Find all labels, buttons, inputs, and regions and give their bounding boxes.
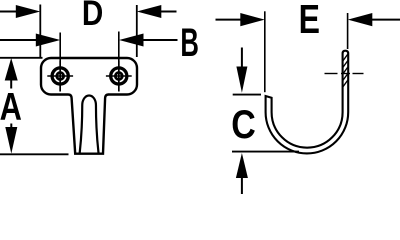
dimension B left arrow xyxy=(0,34,60,47)
extension line A bottom xyxy=(0,153,69,155)
J-hook profile (side view) xyxy=(266,51,349,154)
section hatch marks in side-view plate edge xyxy=(343,54,348,87)
extension line D left xyxy=(39,5,41,58)
extension line C bottom xyxy=(232,151,299,153)
extension line E left xyxy=(264,11,266,92)
svg-text:C: C xyxy=(231,102,256,146)
svg-text:B: B xyxy=(180,22,199,66)
dimension D right arrow xyxy=(137,5,177,18)
svg-text:A: A xyxy=(0,86,22,129)
extension line D right xyxy=(136,5,138,57)
extension line A top xyxy=(0,57,43,59)
dimension D left arrow xyxy=(0,5,40,18)
dimension C up arrow xyxy=(236,153,248,194)
extension line E right xyxy=(347,13,349,49)
screw hole left xyxy=(47,61,73,92)
extension line B left (runs into left hole crosshair) xyxy=(59,33,61,92)
extension line C top xyxy=(233,94,261,96)
plate outline (front view) xyxy=(41,58,137,95)
dimension A down arrow xyxy=(5,124,17,154)
svg-text:E: E xyxy=(299,0,320,42)
dimension B right arrow xyxy=(119,34,178,47)
prong inner arch xyxy=(80,96,99,153)
hole centerline (side view, dashed) xyxy=(325,73,364,75)
dimension E right arrow xyxy=(348,13,400,26)
extension line B right (runs into right hole crosshair) xyxy=(118,32,120,92)
svg-text:D: D xyxy=(82,0,103,33)
screw hole right xyxy=(106,61,132,92)
dimension C down arrow xyxy=(236,48,247,93)
dimension E left arrow xyxy=(216,13,265,26)
prong outer outline (front view) xyxy=(69,95,109,154)
dimension A up arrow xyxy=(5,58,18,89)
